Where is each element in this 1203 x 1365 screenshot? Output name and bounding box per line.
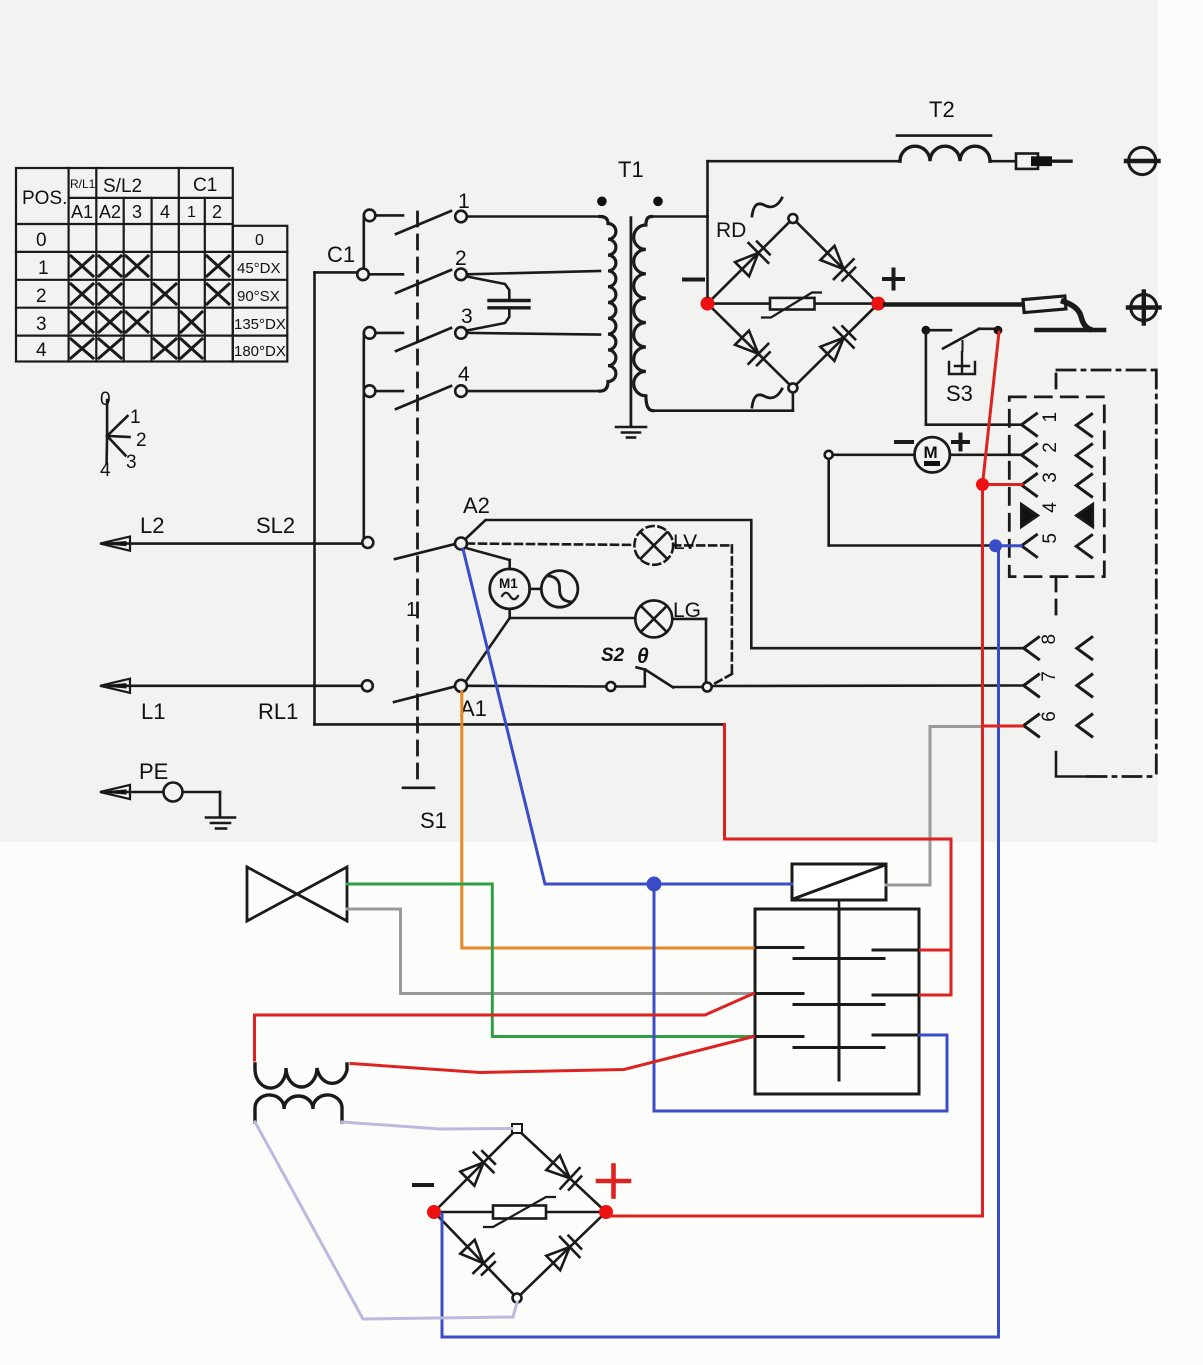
selector position star — [100, 389, 147, 481]
wire lavender inductor to HF bottom — [255, 1122, 517, 1319]
contact row 3 — [755, 1035, 919, 1048]
svg-text:1: 1 — [187, 204, 196, 221]
line L2 / SL2 with arrow — [100, 513, 362, 551]
svg-text:2: 2 — [212, 202, 222, 222]
bridge top vertex — [788, 214, 797, 223]
fan symbol — [530, 571, 578, 608]
C1 contact 2 — [357, 247, 467, 293]
svg-text:8: 8 — [1039, 634, 1060, 645]
diode D3 — [460, 1240, 495, 1275]
HF node minus dot — [427, 1205, 441, 1219]
svg-text:3: 3 — [461, 305, 473, 328]
HF bottom vertex — [513, 1294, 522, 1303]
C1 contact 3 — [364, 305, 473, 351]
S3 thermal element — [949, 352, 975, 374]
svg-text:A1: A1 — [460, 696, 487, 721]
junction red dot pin3 — [976, 478, 989, 491]
S1 end bar and label — [403, 599, 447, 833]
svg-text:1: 1 — [1040, 412, 1061, 423]
wire A1 to M1/LG node — [466, 618, 510, 682]
torch plug connector — [1016, 154, 1071, 169]
node plus (red) — [871, 297, 885, 311]
AC squiggle top — [752, 198, 782, 216]
wire gray valve to relay row2 — [347, 909, 753, 994]
bridge edges — [708, 219, 879, 388]
minus sign — [684, 278, 703, 282]
gas valve Y1 — [247, 867, 347, 921]
thermostat switch S2 — [601, 645, 1022, 692]
dashed stub above box — [1055, 374, 1058, 396]
wire blue pin5 to HF minus — [442, 546, 1021, 1337]
S1 mechanical dashed link — [416, 212, 419, 786]
junction blue dot coil — [647, 877, 662, 892]
wire A2 to pin 8 — [466, 520, 1023, 648]
relay coil K1 — [792, 864, 886, 909]
svg-text:4: 4 — [36, 340, 47, 361]
svg-text:0: 0 — [36, 230, 47, 251]
svg-text:RD: RD — [716, 219, 746, 242]
svg-text:A2: A2 — [463, 493, 490, 518]
svg-text:PE: PE — [139, 759, 168, 784]
ground PE — [206, 818, 235, 829]
wire red C1 bus to relay right contacts — [725, 724, 952, 995]
svg-text:3: 3 — [36, 314, 47, 335]
workpiece bar — [1037, 328, 1105, 333]
wire orange A1 to relay row1 — [462, 692, 753, 948]
HF bridge — [414, 1124, 629, 1303]
pin 1 — [1022, 412, 1092, 436]
wire bridge minus up to T2 — [706, 161, 709, 296]
svg-text:C1: C1 — [327, 242, 355, 267]
svg-text:M1: M1 — [499, 576, 518, 591]
svg-text:0: 0 — [100, 389, 111, 410]
HF node plus dot — [599, 1205, 613, 1219]
svg-text:LV: LV — [673, 531, 697, 554]
T1 core ground — [616, 427, 646, 438]
svg-text:S/L2: S/L2 — [103, 176, 142, 197]
capacitor C between taps 2 and 3 — [467, 277, 529, 331]
table POS/S-L1/S-L2/C1 — [16, 168, 287, 362]
svg-text:A2: A2 — [99, 202, 121, 222]
T1 secondary winding — [634, 217, 653, 411]
terminal minus symbol — [1126, 147, 1159, 174]
minus label — [896, 440, 912, 444]
T1 primary winding — [600, 217, 616, 392]
relay contact block — [755, 909, 919, 1094]
svg-text:2: 2 — [1040, 442, 1061, 453]
C1 contact 1 — [364, 190, 470, 234]
wire S2 to pin 7 — [712, 684, 1022, 687]
svg-text:1: 1 — [130, 407, 141, 428]
contact row 2 — [755, 994, 919, 1005]
wire blue A2 to coil and loop — [463, 549, 947, 1111]
diode RD3 — [735, 331, 770, 366]
connector dashed box pins 1-5 — [1009, 397, 1104, 577]
svg-text:90°SX: 90°SX — [237, 288, 280, 305]
svg-text:RL1: RL1 — [258, 699, 298, 724]
inductor T2 — [708, 97, 1017, 161]
svg-text:M: M — [924, 443, 938, 462]
HF minus sign — [414, 1183, 432, 1187]
pin 7 — [1024, 671, 1092, 696]
switch S3 — [922, 326, 1022, 425]
wire red inductor-right to relay row3 — [351, 1037, 754, 1073]
line L1 / RL1 with arrow — [100, 679, 362, 724]
svg-text:S3: S3 — [946, 381, 973, 406]
pin 3 — [1022, 472, 1092, 496]
svg-text:POS.: POS. — [22, 188, 67, 209]
plus label — [953, 435, 968, 450]
left bus wire from C1 — [315, 272, 724, 724]
svg-text:A1: A1 — [71, 202, 93, 222]
diode RD2 — [820, 246, 855, 281]
svg-text:3: 3 — [126, 452, 137, 473]
junction blue dot pin5 — [989, 539, 1002, 552]
machine boundary dash-dot — [1057, 370, 1156, 777]
svg-text:R/L1: R/L1 — [70, 177, 96, 191]
svg-text:L1: L1 — [141, 699, 165, 724]
svg-text:T1: T1 — [618, 157, 644, 182]
svg-text:C1: C1 — [193, 175, 217, 196]
wire red inductor-left to relay row2 — [255, 994, 754, 1061]
welding output wire — [885, 302, 1024, 307]
link contacts 3-4 and down to SL2 pivot — [362, 333, 365, 391]
contact row 1 — [755, 948, 919, 959]
svg-text:3: 3 — [1040, 472, 1061, 483]
svg-text:1: 1 — [406, 599, 417, 621]
T1 secondary leads — [652, 215, 708, 218]
svg-text:5: 5 — [1040, 533, 1061, 544]
wire red S3 to HF plus — [611, 332, 1022, 1216]
svg-text:2: 2 — [455, 247, 467, 270]
svg-text:135°DX: 135°DX — [234, 316, 286, 333]
transformer T1 — [597, 157, 793, 438]
wire lavender inductor to HF top — [342, 1122, 512, 1129]
diode RD1 — [735, 242, 770, 277]
diode RD4 — [820, 326, 855, 361]
pin 4 keys — [1022, 502, 1093, 527]
svg-text:6: 6 — [1039, 711, 1060, 722]
pin 8 — [1024, 634, 1092, 659]
svg-text:0: 0 — [255, 232, 264, 249]
svg-text:45°DX: 45°DX — [237, 260, 281, 277]
wire M1 bottom to LG — [510, 617, 636, 620]
svg-text:3: 3 — [132, 202, 142, 222]
svg-text:4: 4 — [458, 363, 470, 386]
HF inductor — [255, 1064, 347, 1122]
lamp LV (dashed) — [467, 526, 732, 685]
PE earth line — [100, 759, 235, 829]
pin 6 — [1024, 711, 1092, 736]
contact SL2/A2 — [362, 493, 490, 559]
AC squiggle bottom — [752, 389, 782, 407]
lamp LG — [635, 599, 706, 681]
diode D4 — [546, 1236, 581, 1271]
terminal plus symbol — [1128, 292, 1160, 324]
rectifier bridge RD — [684, 198, 903, 407]
wire A1 to S2 — [467, 684, 607, 687]
motor return loop to pin5 — [827, 459, 830, 546]
dashed stub below box — [1055, 577, 1058, 620]
T1 core — [630, 218, 633, 425]
T1 secondary dot — [653, 197, 663, 207]
diode D1 — [460, 1151, 495, 1186]
svg-text:4: 4 — [160, 202, 170, 222]
wire feeder motor M — [825, 435, 1021, 546]
contact RL1/A1 — [362, 680, 487, 721]
svg-text:S1: S1 — [420, 808, 447, 833]
bridge bottom vertex — [788, 383, 797, 392]
pin 2 — [1022, 442, 1092, 466]
svg-text:S2: S2 — [601, 645, 625, 666]
connector pins 1-5 — [1022, 412, 1093, 557]
svg-text:4: 4 — [1040, 502, 1061, 513]
svg-text:T2: T2 — [929, 97, 955, 122]
connector pins 8 7 6 — [1024, 634, 1092, 737]
svg-text:SL2: SL2 — [256, 513, 295, 538]
T1 primary dot — [597, 197, 607, 207]
wire green valve to relay row3 — [347, 884, 753, 1037]
link contacts 1-2 — [362, 215, 365, 274]
electrode holder — [1023, 296, 1090, 329]
svg-text:1: 1 — [38, 258, 49, 279]
svg-text:2: 2 — [36, 286, 47, 307]
svg-text:180°DX: 180°DX — [234, 343, 286, 360]
svg-text:7: 7 — [1039, 671, 1060, 682]
svg-text:4: 4 — [100, 460, 111, 481]
wire gray coil to pin6 junction — [886, 727, 983, 886]
diode D2 — [546, 1155, 581, 1189]
node minus (red) — [701, 297, 715, 311]
svg-text:L2: L2 — [140, 513, 164, 538]
HF plus sign red — [598, 1166, 629, 1197]
wires taps to T1 primary — [467, 217, 600, 392]
plus sign — [884, 270, 903, 289]
colored wires — [255, 332, 1023, 1337]
motor M1 — [466, 548, 530, 618]
pin 5 — [1022, 533, 1092, 557]
svg-text:θ: θ — [637, 645, 649, 668]
HF top vertex — [512, 1124, 522, 1133]
C1 contact 4 — [364, 363, 470, 409]
svg-text:1: 1 — [458, 190, 470, 213]
S3 wire to pin1 — [925, 330, 928, 425]
varistor HF — [441, 1197, 599, 1227]
varistor across bridge — [713, 293, 872, 318]
svg-text:2: 2 — [136, 430, 147, 451]
bottom bracket of connector group — [1056, 752, 1156, 777]
